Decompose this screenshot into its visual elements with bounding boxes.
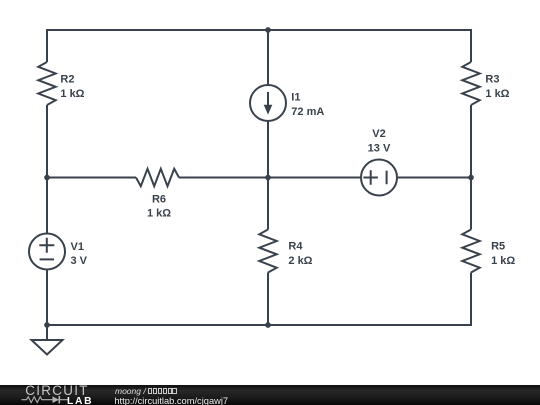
resistor R2	[38, 62, 55, 105]
wire: I1 to middle node	[267, 121, 269, 178]
node at ground / bottom rail junction	[44, 322, 50, 328]
footer metadata line 1	[115, 387, 177, 395]
svg-text:3 V: 3 V	[71, 255, 88, 267]
wire: left rail V1 to bottom node	[46, 270, 48, 326]
node at right rail / middle wire junction	[468, 175, 474, 181]
CircuitLab logo text LAB	[67, 398, 93, 405]
wire: right rail middle node to R5	[470, 178, 472, 230]
wire: middle horizontal R6 to V2	[179, 177, 361, 179]
svg-text:2 kΩ: 2 kΩ	[288, 255, 312, 267]
voltage source V1	[29, 234, 65, 270]
wire: R4 to bottom node	[267, 273, 269, 326]
footer bar	[0, 385, 540, 405]
CircuitLab logo text CIRCUIT	[25, 384, 88, 397]
CircuitLab logo resistor-diode glyph	[21, 394, 69, 405]
svg-text:R3: R3	[485, 73, 499, 85]
node at R4 / bottom rail junction	[265, 322, 271, 328]
svg-text:R4: R4	[288, 240, 303, 252]
resistor R4	[259, 230, 276, 273]
current source I1	[250, 85, 286, 121]
wire: middle horizontal left segment	[47, 177, 136, 179]
svg-text:V2: V2	[372, 128, 385, 140]
wire: middle horizontal V2 to right rail	[397, 177, 471, 179]
resistor R6	[136, 169, 179, 186]
node at left rail / middle wire junction	[44, 175, 50, 181]
wire: top rail with corners	[47, 30, 471, 62]
wire: left rail R2 to middle node	[46, 105, 48, 178]
wire: left rail middle node to V1	[46, 178, 48, 234]
svg-text:13 V: 13 V	[368, 143, 391, 155]
svg-text:1 kΩ: 1 kΩ	[491, 255, 515, 267]
svg-text:R2: R2	[60, 73, 74, 85]
voltage source V2	[361, 160, 397, 196]
wire: bottom rail with right corner	[47, 273, 471, 326]
svg-text:I1: I1	[291, 92, 300, 104]
ground	[32, 340, 63, 355]
svg-text:72 mA: 72 mA	[291, 106, 324, 118]
wire: middle node to R4	[267, 178, 269, 230]
svg-text:1 kΩ: 1 kΩ	[485, 88, 509, 100]
svg-text:R6: R6	[152, 193, 166, 205]
node at center junction	[265, 175, 271, 181]
wire: I1 branch top	[267, 30, 269, 85]
wire: ground stub	[46, 325, 48, 340]
svg-text:V1: V1	[71, 241, 84, 253]
resistor R3	[462, 62, 479, 105]
wire: right rail R3 to middle node	[470, 105, 472, 178]
svg-text:1 kΩ: 1 kΩ	[147, 208, 171, 220]
resistor R5	[462, 230, 479, 273]
node at I1 top / top rail junction	[265, 27, 271, 33]
svg-text:1 kΩ: 1 kΩ	[60, 88, 84, 100]
svg-text:R5: R5	[491, 240, 505, 252]
footer metadata line 2	[114, 397, 228, 405]
